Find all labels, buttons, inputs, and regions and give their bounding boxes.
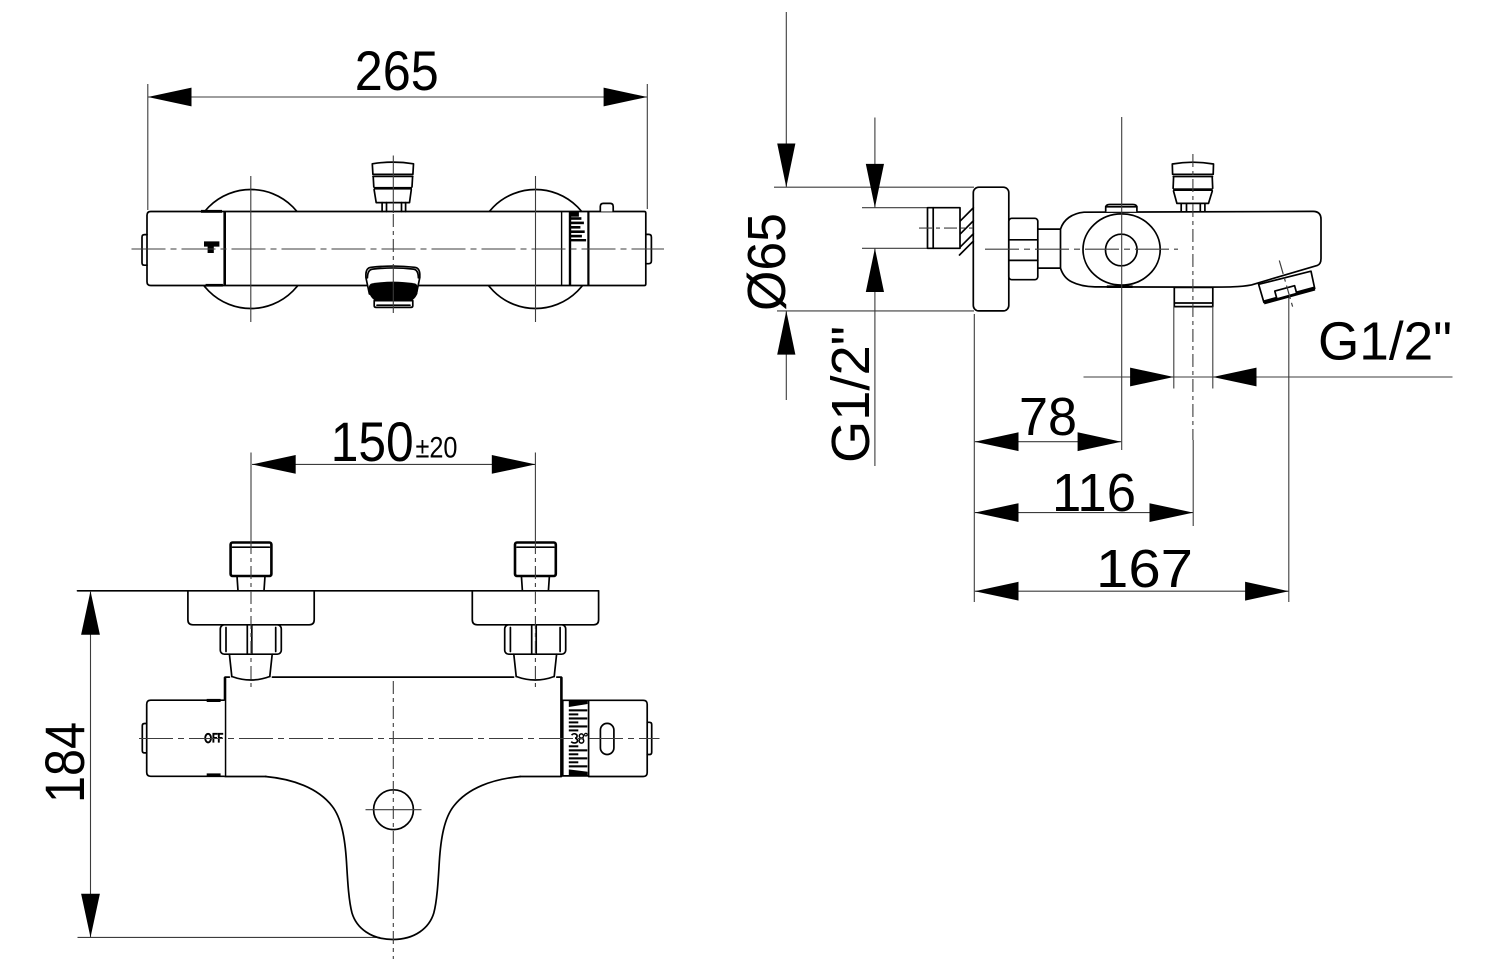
dimension 184 bottom arrow — [81, 894, 100, 938]
temperature handle oval slot — [600, 723, 614, 754]
right inlet stem — [521, 576, 549, 591]
right hex nut facets — [532, 625, 537, 654]
cartridge inner circle — [1106, 234, 1138, 266]
temperature ring division line x=588.4 — [587, 212, 589, 286]
body top edge segments — [225, 676, 561, 678]
left inlet square nut — [231, 543, 272, 577]
G1/2 top right arrow — [1213, 368, 1257, 387]
diverter knob black band (side view) — [1173, 188, 1213, 191]
diverter knob band line — [373, 175, 413, 177]
spout vertical centerline — [392, 681, 394, 959]
dimension 150 right arrow — [492, 455, 536, 474]
bottom tab bar — [1107, 285, 1133, 288]
tick strip on bottom edge of left handle — [206, 284, 223, 287]
extension line left x=147.8 — [147, 84, 149, 210]
right rosette vertical centerline — [535, 176, 537, 322]
116 extension line — [1192, 440, 1194, 526]
left handle bottom tick — [207, 773, 221, 776]
svg-text:G1/2": G1/2" — [821, 326, 881, 463]
body bottom edge segments — [225, 776, 561, 778]
hatch lines — [960, 208, 974, 255]
bottom reference line — [78, 936, 381, 938]
spout mounting hole — [374, 790, 414, 830]
dimension 150 left arrow — [252, 455, 296, 474]
svg-text:Ø65: Ø65 — [737, 213, 797, 311]
cartridge cap ellipse — [1083, 214, 1160, 285]
extension line right x=647.3 — [646, 84, 648, 209]
dimension 167 line — [975, 590, 1289, 592]
dimension 116 line — [975, 512, 1193, 514]
temperature scale strip edge line — [562, 700, 564, 776]
top tab inner line — [1106, 206, 1137, 208]
diverter knob lower section — [374, 190, 411, 203]
left handle end cap — [142, 724, 146, 753]
temperature handle (front view) — [589, 700, 648, 776]
dimension 184 line — [90, 591, 92, 937]
svg-text:167: 167 — [1096, 539, 1193, 599]
dimension 150 line — [252, 463, 536, 465]
cartridge division thick line x=570 — [569, 212, 571, 286]
dimension 167 right arrow — [1245, 582, 1289, 601]
dimension 78 right arrow — [1078, 432, 1122, 451]
shut-off square inner line — [1174, 302, 1213, 304]
spout hole horizontal crosshair — [366, 809, 422, 811]
dimension 78 left arrow — [975, 432, 1019, 451]
left rosette circle — [191, 190, 310, 309]
main horizontal centerline (top view) — [132, 248, 665, 250]
nipple extension bottom — [862, 247, 927, 249]
svg-text:265: 265 — [355, 39, 439, 102]
O65 extension bottom — [777, 310, 974, 312]
right inlet cone — [514, 654, 557, 676]
left rosette vertical centerline — [250, 176, 252, 322]
left hex nut — [220, 625, 281, 654]
diverter knob small square (top view) — [600, 203, 613, 211]
svg-text:78: 78 — [1019, 387, 1077, 447]
right inlet square nut — [515, 543, 556, 577]
diverter knob stem legs (side view) — [1181, 203, 1205, 211]
shower nipple — [928, 208, 961, 249]
extension line right inlet — [534, 453, 536, 542]
hex adapter facet lines — [1009, 240, 1038, 261]
167 right extension line — [1288, 298, 1290, 603]
dimension O65 top arrow — [777, 144, 795, 188]
aerator dark opening — [369, 282, 418, 303]
neck cylinder — [1038, 229, 1061, 268]
shut-off square connector — [1174, 287, 1213, 306]
svg-text:184: 184 — [33, 722, 96, 803]
temperature scale strip top/bottom edges — [561, 700, 588, 776]
dimension 184 top arrow — [81, 591, 100, 635]
right end cap (top view) — [646, 234, 652, 263]
dimension 78 line — [975, 441, 1122, 443]
dimension 116 right arrow — [1150, 503, 1194, 522]
diverter knob middle section — [373, 176, 412, 187]
extension line left inlet — [250, 453, 252, 542]
diverter knob stem legs — [382, 203, 406, 212]
aerator flange (top view) — [366, 266, 420, 294]
shower nipple inner line — [932, 208, 934, 249]
diverter/aerator vertical centerline — [392, 156, 394, 214]
diverter knob cap (top view) — [372, 162, 413, 174]
right escutcheon — [472, 591, 598, 625]
left handle top tick — [207, 699, 221, 702]
left inlet centerline — [250, 541, 252, 691]
38° label — [571, 733, 587, 743]
right hex nut — [505, 625, 566, 654]
right inlet cone bottom curve — [516, 677, 554, 681]
dimension 265 right arrow — [604, 88, 648, 107]
left inlet cone bottom curve — [232, 677, 270, 681]
knob/pipe centerline — [1192, 154, 1194, 440]
nipple dimension line lower — [874, 248, 876, 466]
faucet body (side view) — [1061, 211, 1322, 287]
dimension 167 left arrow — [975, 582, 1019, 601]
dimension 116 left arrow — [975, 503, 1019, 522]
wall line — [78, 590, 599, 592]
left escutcheon — [188, 591, 314, 625]
diverter knob black band — [374, 187, 412, 190]
top tab (side view) — [1106, 205, 1137, 212]
nipple dimension top arrow — [866, 164, 884, 208]
dimension O65 line upper — [785, 12, 787, 187]
OFF indicator mark (top view) — [204, 241, 219, 253]
mixer body (top view) — [147, 212, 646, 286]
nipple dimension line upper — [874, 118, 876, 208]
left inlet square nut chamfer line — [233, 546, 270, 548]
dimension O65 line lower — [785, 311, 787, 400]
hex adapter (side view) — [1009, 218, 1038, 279]
main centerline (side view) — [985, 248, 1178, 250]
temperature scale ticks (top view) — [571, 212, 579, 217]
dimension 265 line — [148, 96, 648, 98]
left hex nut facets — [247, 625, 252, 654]
spout curve — [266, 777, 521, 940]
dimension O65 bottom arrow — [777, 311, 795, 355]
diverter knob middle (side view) — [1173, 177, 1213, 189]
wall flange (side view) — [973, 187, 1009, 311]
spout axis centerline — [1279, 261, 1293, 309]
diverter knob lower (side view) — [1174, 191, 1213, 203]
right rosette circle — [476, 190, 595, 309]
nipple extension top — [862, 207, 927, 209]
left extension line for dims — [973, 314, 975, 602]
cartridge division thin line x=561.6 — [561, 212, 563, 286]
svg-text:150: 150 — [331, 410, 414, 473]
cartridge vertical thin line — [1121, 117, 1123, 450]
tick strip on top edge of left handle — [201, 210, 222, 213]
spout aerator notch — [1275, 286, 1297, 299]
spout (side view) — [1259, 271, 1315, 302]
OFF label — [205, 734, 223, 743]
dimension 265 left arrow — [148, 88, 192, 107]
body right edge — [560, 677, 563, 776]
nipple dimension bottom arrow — [866, 248, 884, 292]
body left edge — [224, 677, 227, 776]
right inlet square nut chamfer line — [517, 546, 554, 548]
left inlet stem — [237, 576, 265, 591]
aerator flange inner line — [367, 268, 418, 278]
G1/2 top left arrow — [1130, 368, 1174, 387]
nipple centerline — [919, 227, 973, 229]
pipe extension line right — [1212, 307, 1214, 389]
left end cap (top view) — [142, 235, 147, 266]
right inlet centerline — [534, 541, 536, 691]
aerator foot — [374, 301, 413, 308]
left inlet cone — [229, 654, 272, 676]
temperature handle end cap — [647, 722, 652, 754]
main horizontal centerline (front view) — [139, 738, 660, 740]
handle/body division line x=224.7 — [223, 212, 226, 286]
temperature scale ticks (front view) — [569, 701, 588, 707]
aerator foot inner line — [377, 304, 410, 306]
diverter knob cap (side view) — [1172, 162, 1213, 174]
diverter knob band line (side view) — [1173, 176, 1212, 178]
left handle (front view) — [147, 700, 225, 776]
svg-text:G1/2": G1/2" — [1318, 312, 1452, 372]
svg-text:±20: ±20 — [416, 432, 458, 465]
svg-text:116: 116 — [1052, 463, 1136, 523]
G1/2 top dimension line — [1084, 376, 1453, 378]
O65 extension top — [774, 186, 974, 188]
pipe extension line left — [1173, 307, 1175, 389]
